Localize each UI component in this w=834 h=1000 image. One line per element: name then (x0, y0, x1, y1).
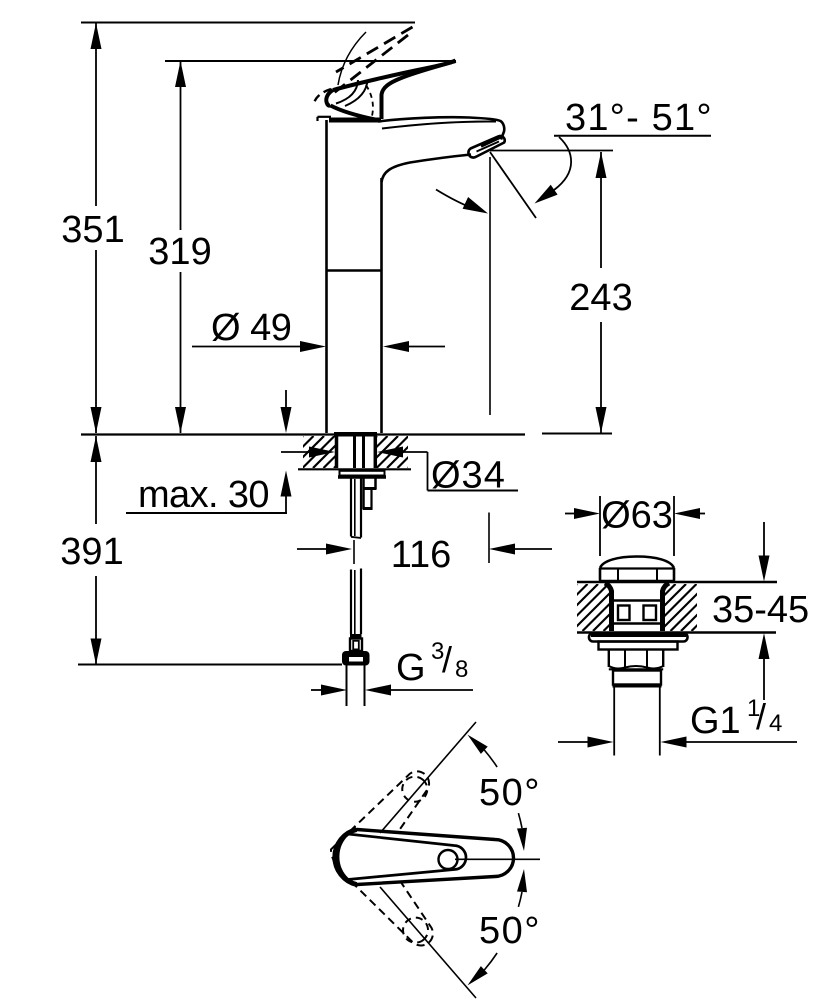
svg-text:31°- 51°: 31°- 51° (565, 97, 713, 139)
svg-text:G: G (396, 647, 426, 689)
svg-text:/: / (442, 639, 452, 680)
svg-text:319: 319 (148, 231, 211, 273)
svg-text:Ø34: Ø34 (431, 455, 506, 497)
svg-text:G1: G1 (690, 700, 741, 742)
svg-text:8: 8 (455, 656, 468, 683)
svg-text:116: 116 (391, 534, 452, 576)
svg-text:Ø63: Ø63 (601, 495, 673, 537)
svg-text:/: / (756, 696, 766, 737)
svg-text:max. 30: max. 30 (138, 474, 269, 516)
svg-text:351: 351 (61, 209, 124, 251)
svg-text:Ø 49: Ø 49 (211, 307, 291, 349)
svg-text:50°: 50° (479, 910, 541, 952)
svg-text:243: 243 (569, 277, 632, 319)
svg-text:391: 391 (60, 531, 123, 573)
svg-text:4: 4 (769, 710, 782, 737)
svg-text:50°: 50° (479, 772, 541, 814)
svg-text:35-45: 35-45 (712, 589, 809, 631)
